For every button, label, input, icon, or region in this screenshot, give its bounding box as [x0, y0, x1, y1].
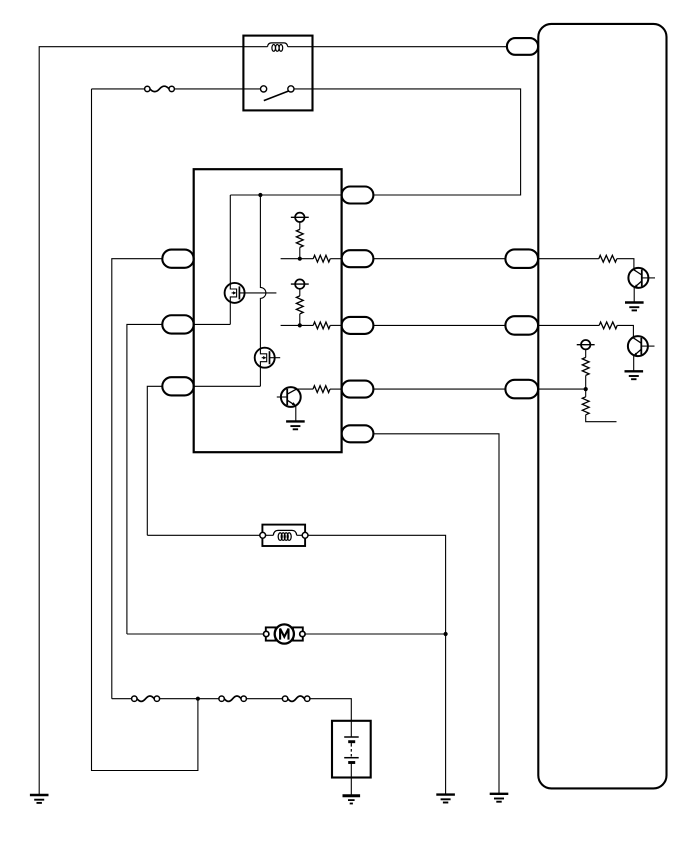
fuse F3 — [224, 696, 241, 701]
power symbol V3 — [581, 340, 590, 349]
wire bottom chain segment 1 — [112, 698, 132, 700]
fuse F2 — [137, 696, 154, 701]
ground G4 battery — [343, 794, 361, 797]
wire bottom chain segment 3 — [246, 698, 283, 700]
inductor L2 box — [262, 525, 305, 546]
wire bottom chain segment 2 — [159, 698, 219, 700]
resistor R8 — [585, 349, 587, 357]
ground G2 — [490, 793, 509, 795]
resistor R3 — [299, 289, 301, 296]
pin L1 of module — [162, 250, 193, 268]
connector pin C1-1 — [507, 38, 538, 55]
wire pin L2 to Q1 source — [194, 323, 231, 325]
wire row R4 to connector — [373, 388, 507, 390]
wire fused feed to relay switch — [92, 88, 145, 90]
wire pin R5 to ground rail — [373, 434, 499, 794]
node N2 — [298, 323, 302, 327]
wire relay switch to module pin R1 — [313, 89, 521, 195]
transistor Q3 (NPN) — [281, 387, 301, 407]
connector pin C1-4 — [505, 380, 538, 399]
ground Q3 emitter — [286, 420, 305, 422]
connector pin C1-2 — [505, 249, 538, 268]
fuse F1 — [150, 86, 169, 91]
component box (actuator assembly) — [538, 24, 666, 789]
wire Q2 gate — [270, 357, 281, 359]
ground G1 — [30, 794, 49, 796]
pin R4 of module — [342, 381, 374, 398]
ground G3 — [436, 793, 455, 795]
resistor R1 — [299, 222, 301, 229]
resistor R2 — [313, 255, 330, 262]
resistor R5 — [296, 388, 313, 390]
wire N1 stub — [281, 258, 314, 260]
pin R3 of module — [342, 317, 374, 334]
motor M1 — [266, 627, 276, 640]
wire Q1 gate — [239, 292, 276, 294]
power symbol V2 — [295, 279, 304, 288]
wire internal supply bus — [230, 194, 341, 196]
pin R5 of module — [342, 425, 374, 442]
wire motor to junction — [305, 633, 446, 635]
transistor Q2 (MOSFET) — [255, 348, 275, 368]
wire row R3 to connector — [373, 324, 507, 326]
wire inductor to ground rail — [308, 535, 446, 794]
node bottom chain junction — [196, 697, 200, 701]
wire pin L3 to Q2 source — [194, 385, 261, 387]
node supply junction — [258, 193, 262, 197]
wire pin L2 rail — [127, 324, 162, 634]
wire battery positive rail to relay coil — [39, 47, 243, 795]
wire fuse F4 to battery — [310, 699, 352, 737]
node N1 — [298, 257, 302, 261]
resistor R6 — [538, 258, 599, 260]
resistor R7 — [538, 324, 599, 326]
wire inductor feed — [147, 534, 263, 536]
wire motor feed — [127, 633, 266, 635]
relay coil L1 — [243, 46, 267, 48]
pin R1 of module — [342, 187, 374, 204]
wire relay coil to connector C1 — [313, 46, 509, 48]
control module U1 — [194, 169, 342, 452]
wire pin L3 rail — [147, 386, 162, 535]
battery B1 — [332, 721, 371, 778]
wire row R2 to connector — [373, 258, 507, 260]
node motor-ground junction — [444, 632, 448, 636]
pin L2 of module — [162, 315, 193, 333]
transistor Q1 (MOSFET) — [230, 195, 236, 324]
node N3 — [584, 387, 588, 391]
wire N2 stub — [281, 324, 314, 326]
relay K1 — [243, 36, 312, 111]
power symbol V1 — [295, 213, 304, 222]
wire row R4 into box — [538, 388, 585, 390]
wire supply to Q2 with hop — [260, 195, 266, 386]
wire fuse F1 to relay — [174, 88, 243, 90]
fuse F4 — [288, 696, 305, 701]
ground Q4 emitter — [625, 301, 644, 303]
ground Q5 emitter — [625, 370, 644, 372]
transistor Q4 (NPN) — [628, 268, 648, 288]
wire pin L1 rail — [112, 259, 163, 699]
connector pin C1-3 — [505, 316, 538, 335]
resistor R9 — [585, 389, 587, 397]
resistor R4 — [313, 322, 330, 329]
pin R2 of module — [342, 250, 374, 267]
transistor Q5 (NPN) — [628, 336, 648, 356]
relay switch SW1 — [243, 88, 260, 90]
pin L3 of module — [162, 377, 193, 395]
